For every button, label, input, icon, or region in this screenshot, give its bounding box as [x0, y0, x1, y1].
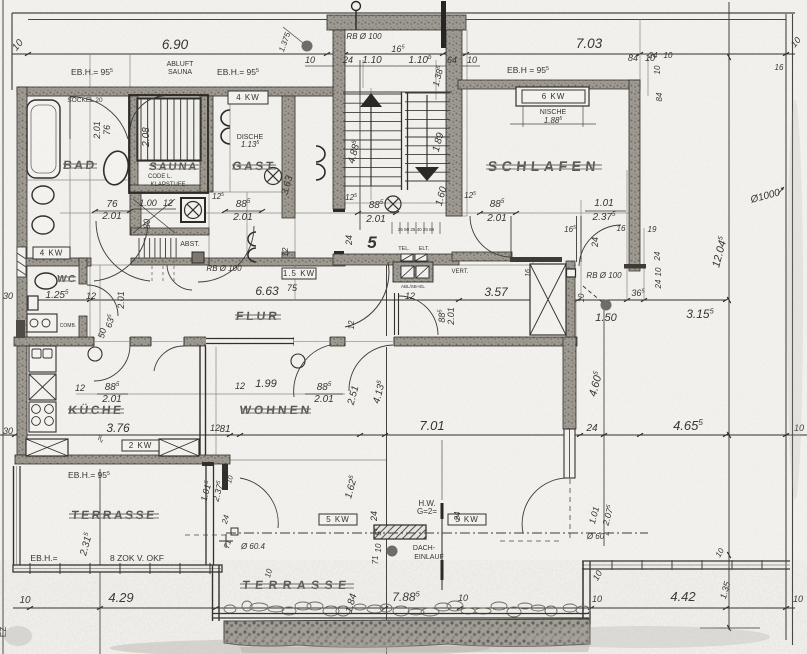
dark square on flur wall: [192, 252, 204, 263]
room label WOHNEN: [239, 403, 313, 417]
door arc wohnen terrace left: [240, 478, 278, 528]
vertical construction line x=295: [294, 96, 296, 300]
room label GAST: [232, 159, 277, 173]
construction lines (faint): [69, 96, 71, 260]
sauna outer border: [129, 95, 208, 193]
door arc wohnen 2: [349, 345, 393, 391]
door arc terrace right: [522, 478, 570, 533]
wc basin row: [27, 314, 57, 332]
lamp wohnen: [291, 354, 305, 368]
wall kueche bottom: [15, 455, 230, 464]
kw box bad: [33, 247, 70, 259]
kueche X-box 1: [26, 439, 68, 456]
schlafen bottom right cap: [624, 264, 646, 269]
roof outline right: [785, 14, 787, 640]
room label TERRASSE upper: [69, 508, 159, 522]
door arc kueche second: [154, 346, 184, 371]
kueche appliance: unit with X: [29, 374, 56, 400]
vertical dimension line stairwell x=360: [359, 60, 361, 230]
wall gast right: [282, 96, 295, 218]
wohnen top thin partition: [206, 336, 293, 347]
door arc gast: [198, 226, 254, 282]
H.K closet block: [393, 262, 433, 282]
lower terrace hedge scribble: [224, 605, 236, 613]
stairs left flight: [343, 93, 401, 95]
stair arrow down: [415, 167, 439, 181]
stair circ-x: [385, 196, 401, 212]
door arc schlafen right: [579, 225, 621, 266]
lower terrace bottom double wall: [212, 613, 589, 615]
wall abst left: [130, 192, 141, 235]
mini dim row: [391, 222, 393, 234]
small circle top: [352, 2, 361, 11]
left double wall below terrace: [212, 565, 214, 621]
room label TERRASSE lower: [240, 578, 354, 592]
terrace dashed lines: [500, 540, 560, 542]
abst closet slats: [138, 238, 140, 258]
TEL/ELT slash boxes: [401, 254, 413, 261]
door arc diele scissor 1: [96, 221, 150, 281]
terrace/wohnen thin double wall: [205, 464, 207, 565]
wc toilet: [35, 273, 57, 289]
room label BAD: [63, 158, 98, 172]
grey dot flur right: [601, 300, 612, 311]
door arc diele scissor 2: [94, 221, 148, 281]
wohnen right window: [564, 429, 575, 478]
door arc top-left small: [130, 96, 165, 132]
chimney X-box: [530, 264, 566, 335]
diele door X-cross: [133, 199, 175, 233]
wall wc right: [79, 258, 87, 284]
lower terrace left double wall: [582, 561, 584, 624]
vertical dimension line right x=726: [728, 2, 730, 630]
wall flur top: [209, 258, 345, 266]
door arc kueche: [94, 345, 130, 381]
dimension line bottom y=608: [13, 607, 795, 609]
dim stack 1.01/2.37 schlafen: [585, 210, 626, 212]
kueche hob circles: [29, 402, 56, 432]
wall left outer: [17, 87, 27, 455]
diele dark square with circ-x: [181, 198, 205, 222]
grey dot left of stairwell: [302, 41, 313, 52]
left terrace double wall: [13, 466, 15, 572]
vertical dimension line x=604 wohnen: [603, 300, 605, 546]
door arc wohnen 1: [294, 345, 330, 397]
wohnen-terrace dash-dot line: [226, 532, 648, 534]
dim 1.00 12 diele: [133, 208, 176, 210]
dimension line y=66 stair: [305, 65, 480, 67]
scan noise overlay: [0, 0, 1, 1]
terrace wall mullions: [611, 560, 613, 570]
dach-einlauf dot: [387, 546, 398, 557]
closet dashed verticals: [151, 260, 153, 282]
door arc wc: [87, 285, 118, 316]
cross mark: [219, 540, 233, 542]
kueche-wohnen divider: [199, 345, 201, 455]
schlafen bottom dark bar: [510, 257, 562, 262]
wall stairwell top: [327, 15, 466, 30]
small box on chimney wall: [567, 269, 576, 277]
bad bidet: [32, 216, 54, 234]
vertical dimension line x=385: [386, 255, 388, 654]
vertical dimension line x=100 bottom: [99, 469, 101, 654]
gast circ-x: [265, 168, 282, 185]
stairwell left door jamb marks: [333, 209, 345, 212]
radiator diele: [248, 232, 256, 262]
door arc flur small: [167, 265, 192, 290]
stair center divider: [401, 92, 403, 190]
wall sauna left: [130, 96, 138, 192]
wall top-left outer: [17, 87, 335, 96]
wall sauna bottom: [130, 185, 207, 192]
wall sauna-gast divider: [200, 96, 213, 192]
dimension line y=435: [0, 434, 807, 436]
kueche X-box 2: [159, 439, 199, 456]
room label KUECHE: [68, 402, 125, 417]
roof outline top: [12, 12, 795, 14]
door arc schlafen left: [470, 216, 511, 257]
door arc flur second + leaf: [394, 293, 396, 335]
dim stack 76/2.01 bad: [95, 210, 130, 212]
wall schlafen bottom left wall: [452, 252, 512, 261]
wall wohnen right: [563, 337, 576, 429]
wohnen terrace door jamb: [222, 464, 228, 490]
bad washbasin ellipse: [101, 149, 132, 187]
sauna slats: [140, 99, 142, 160]
wall stairwell bottom: [333, 254, 459, 265]
kw box kueche: [122, 440, 159, 451]
wc small fixture: [28, 296, 38, 310]
kueche appliance: sink unit: [29, 346, 56, 372]
wall bad bottom: [25, 258, 91, 266]
wall stairwell right + schlafen left: [446, 30, 462, 216]
room label WC: [56, 274, 77, 285]
kw box terrace 1: [319, 514, 357, 525]
section marker top: [441, 1, 446, 48]
wall wc right lower: [79, 316, 87, 337]
wall abst bottom: [131, 258, 209, 265]
door arc flur entrance: [345, 262, 389, 327]
dim stack 88/2.01 stairwell: [358, 212, 396, 214]
wall schlafen top: [458, 80, 640, 89]
lower terrace top wall (right): [582, 560, 790, 562]
dimension line top y=54: [12, 53, 795, 55]
wall schlafen right: [629, 80, 640, 271]
bad toilet 1: [32, 186, 54, 204]
scan blotches: [520, 626, 770, 648]
H.W. centerline: [441, 503, 443, 590]
room label SAUNA: [149, 161, 199, 173]
radiator gast left: [221, 110, 230, 144]
hatched drain box: [374, 525, 426, 539]
radiator corridor right: [316, 146, 325, 180]
terrace upper-left bottom double wall: [13, 565, 222, 572]
stairs right flight: [405, 92, 450, 94]
dark blotch on left wall: [16, 320, 25, 338]
kw box schlafen (6kw): [516, 87, 589, 106]
construction line x=442 lower: [441, 440, 443, 500]
stair arrow up: [360, 93, 382, 107]
kw box flur: [282, 268, 316, 279]
wall stairwell left: [333, 30, 345, 209]
room label SCHLAFEN: [486, 158, 602, 174]
dimension line middle y=300: [25, 299, 726, 301]
wohnen floor line: [230, 459, 386, 461]
left wall window hatch: [17, 247, 26, 277]
kw box terrace 2: [448, 514, 486, 525]
property line left: [2, 0, 4, 654]
bathtub: [27, 100, 60, 178]
wall flur bottom long: [14, 337, 577, 346]
lower terrace rough bottom band: [224, 619, 590, 647]
kw box gast: [228, 91, 268, 104]
wall gast right lower stub: [282, 252, 295, 265]
wall abst top: [131, 228, 209, 235]
door arc bad: [70, 97, 128, 139]
small box at dash intersection: [231, 528, 238, 535]
room label FLUR: [235, 309, 281, 323]
lamp kueche: [88, 347, 102, 361]
wall chimney east wall: [566, 261, 575, 345]
